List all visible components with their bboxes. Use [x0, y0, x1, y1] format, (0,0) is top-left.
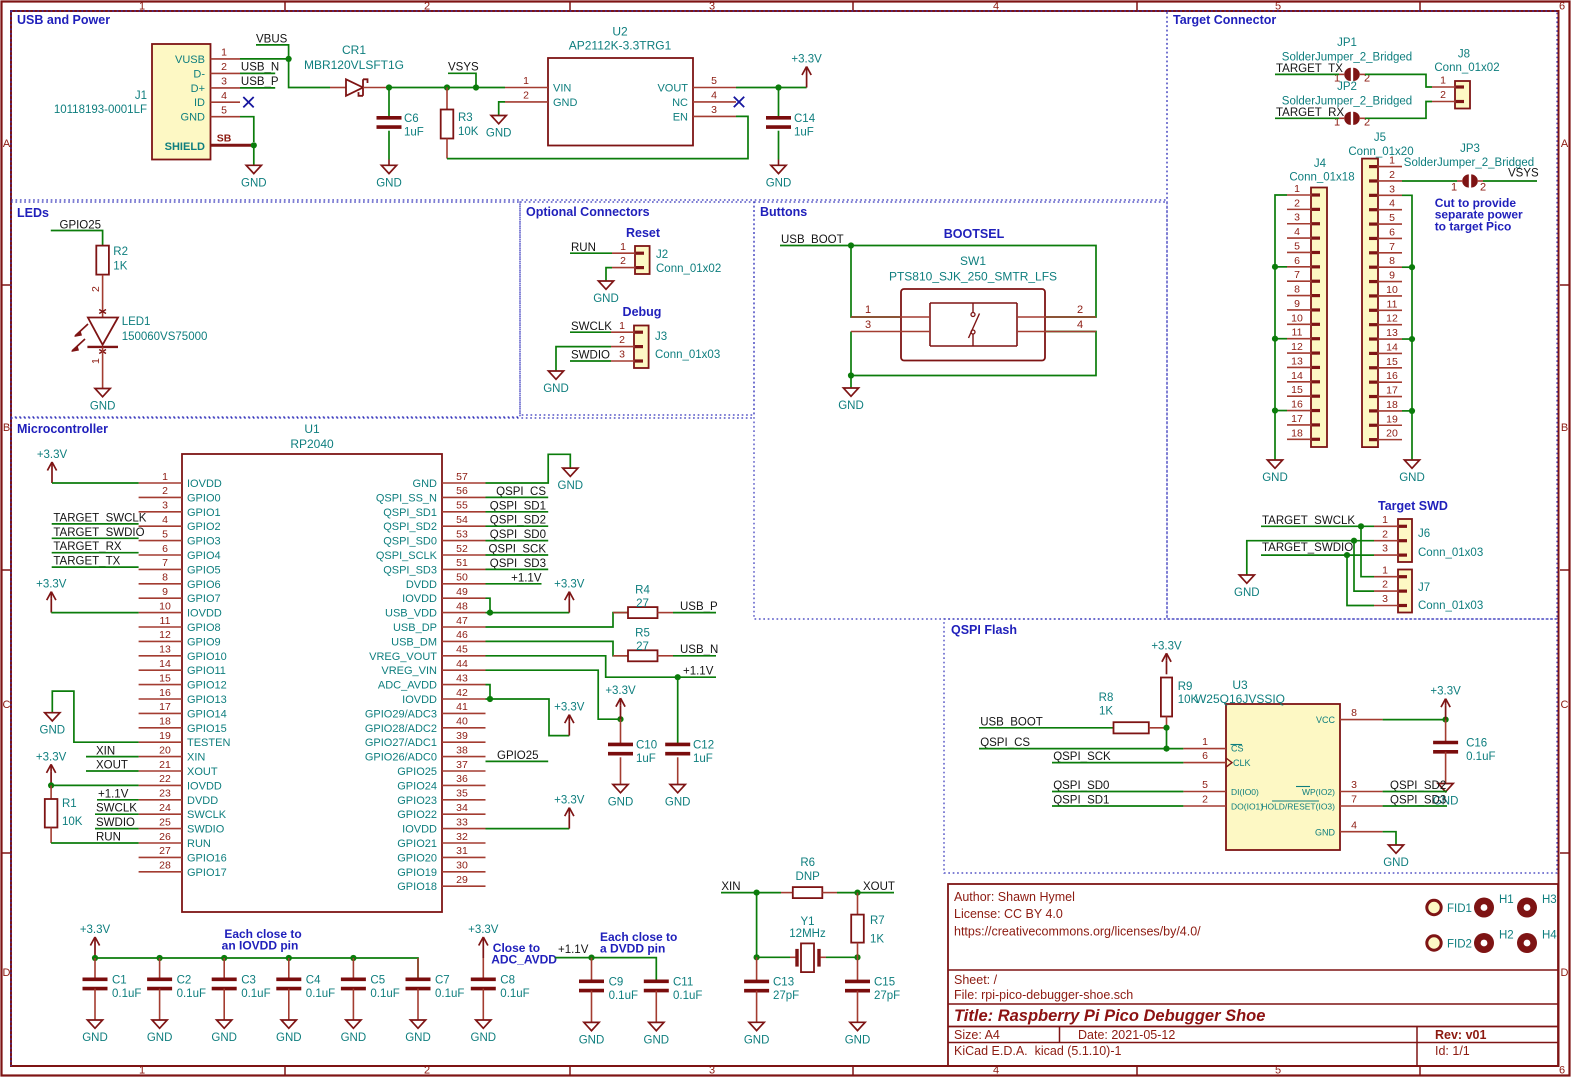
U1 pin 28 GPIO17: [139, 871, 182, 873]
ground symbol below SW1: [843, 388, 858, 396]
wire U1 USB_DP pin47 to R4: [486, 613, 629, 627]
power symbol +3.3V at VREG_VIN: [620, 705, 622, 719]
J5 pin 12: [1378, 324, 1402, 326]
svg-text:0.1uF: 0.1uF: [435, 988, 464, 1000]
svg-text:GPIO7: GPIO7: [187, 593, 221, 605]
U1 pin 15 GPIO12: [139, 684, 182, 686]
J1 pin 2 D-: [211, 72, 241, 74]
svg-text:TARGET_SWDIO: TARGET_SWDIO: [53, 527, 144, 539]
svg-text:8: 8: [1389, 255, 1395, 267]
J3 pin 3: [611, 360, 634, 362]
ground symbol below J5: [1404, 460, 1419, 468]
U1 pin 36 GPIO24: [442, 784, 486, 786]
U1 pin 25 SWDIO: [139, 828, 182, 830]
U1 pin 6 GPIO4: [139, 554, 182, 556]
svg-text:DO(IO1): DO(IO1): [1231, 801, 1263, 811]
U1 pin 38 GPIO26/ADC0: [442, 756, 486, 758]
wire J6 pin2 to ground: [1247, 541, 1374, 575]
svg-text:QSPI_SD0: QSPI_SD0: [1053, 780, 1109, 792]
svg-text:27pF: 27pF: [773, 990, 799, 1002]
junction XIN: [754, 890, 760, 896]
wire XIN down to crystal: [756, 893, 758, 958]
svg-text:26: 26: [159, 831, 171, 843]
svg-text:5: 5: [162, 528, 168, 540]
svg-text:GPIO5: GPIO5: [187, 564, 221, 576]
connector J3 Conn_01x03 body: [634, 326, 649, 369]
wire J2 pin2 to ground: [606, 268, 612, 281]
U1 pin 9 GPIO7: [139, 597, 182, 599]
svg-text:+1.1V: +1.1V: [558, 944, 589, 956]
svg-text:+1.1V: +1.1V: [511, 572, 542, 584]
wire shield junction down to GND: [253, 148, 255, 165]
svg-text:QSPI_SD1: QSPI_SD1: [490, 500, 546, 512]
U1 pin 5 GPIO3: [139, 540, 182, 542]
svg-text:1: 1: [221, 47, 227, 59]
wire JP2 to J8 pin2: [1365, 102, 1432, 119]
svg-text:C13: C13: [773, 977, 794, 989]
J7 pin 2: [1374, 590, 1398, 592]
junction R8 R9: [1163, 725, 1169, 731]
resistor R2 1K: [96, 246, 109, 275]
svg-text:4: 4: [1351, 819, 1357, 831]
svg-text:R4: R4: [635, 585, 650, 597]
svg-text:7: 7: [162, 557, 168, 569]
svg-text:27: 27: [159, 845, 171, 857]
svg-text:GND: GND: [1234, 587, 1260, 599]
J4 pin 11: [1287, 338, 1311, 340]
svg-text:GND: GND: [211, 1032, 237, 1044]
ground symbol below C2: [152, 1020, 167, 1028]
svg-text:56: 56: [456, 485, 468, 497]
svg-text:48: 48: [456, 600, 468, 612]
svg-text:21: 21: [159, 759, 171, 771]
wire J4 pin 11 to bus: [1275, 338, 1287, 340]
svg-text:C6: C6: [404, 113, 419, 125]
junction crystal right: [854, 954, 860, 960]
svg-text:D: D: [3, 967, 11, 979]
wire SW1 pin3 to bottom gnd rail: [850, 332, 852, 376]
regulator U2 AP2112K-3.3TRG1 body: [548, 58, 693, 146]
svg-text:ID: ID: [194, 97, 205, 109]
U2 pin 5 VOUT: [693, 87, 736, 89]
J4 pin 9: [1287, 309, 1311, 311]
wire J6 pin2 bus to J7 pin2: [1354, 541, 1374, 591]
svg-text:12: 12: [1291, 341, 1303, 353]
U1 pin 57 GND: [442, 482, 486, 484]
svg-text:PTS810_SJK_250_SMTR_LFS: PTS810_SJK_250_SMTR_LFS: [889, 270, 1057, 284]
power symbol +3.3V at U2 output: [806, 74, 808, 88]
J6 pin 1: [1374, 525, 1398, 527]
svg-text:54: 54: [456, 514, 468, 526]
svg-text:QSPI_SD3: QSPI_SD3: [1390, 795, 1446, 807]
svg-text:GND: GND: [181, 112, 206, 124]
J5 pin 15: [1378, 367, 1402, 369]
capacitor C6 1uF: [388, 88, 390, 118]
J4 pin 10: [1287, 323, 1311, 325]
svg-text:1uF: 1uF: [693, 753, 713, 765]
connector J2 Conn_01x02 body: [635, 246, 650, 274]
svg-text:GND: GND: [405, 1032, 431, 1044]
LED1 emission arrows: [75, 324, 88, 336]
J4 pin 1: [1287, 194, 1311, 196]
svg-text:GND: GND: [471, 1032, 497, 1044]
junction at C4: [286, 955, 292, 961]
svg-text:8: 8: [1294, 284, 1300, 296]
svg-text:3: 3: [1389, 183, 1395, 195]
U1 pin 22 IOVDD: [139, 784, 182, 786]
svg-text:5: 5: [1294, 240, 1300, 252]
U1 pin 29 GPIO18: [442, 885, 486, 887]
ground symbol below C11: [649, 1022, 664, 1030]
J5 pin 14: [1378, 352, 1402, 354]
J4 pin 4: [1287, 237, 1311, 239]
section box Buttons: [754, 202, 1167, 619]
power symbol +3.3V at U1 pin10: [50, 599, 52, 613]
svg-text:19: 19: [159, 730, 171, 742]
svg-text:C11: C11: [673, 977, 693, 989]
svg-text:14: 14: [1386, 341, 1398, 353]
svg-text:3: 3: [709, 1065, 715, 1077]
svg-text:FID1: FID1: [1447, 903, 1472, 915]
svg-text:TARGET_SWDIO: TARGET_SWDIO: [1262, 542, 1353, 554]
wire R2 to LED1: [102, 275, 104, 318]
svg-text:R9: R9: [1178, 681, 1193, 693]
U1 pin 43 ADC_AVDD: [442, 684, 486, 686]
svg-text:29: 29: [456, 874, 468, 886]
svg-text:GND: GND: [608, 797, 634, 809]
capacitor C14 1uF: [778, 88, 780, 118]
wire USB_BOOT to SW1 pin2 via top: [851, 246, 1096, 318]
power symbol +3.3V at USB_VDD: [568, 599, 570, 613]
svg-text:R7: R7: [870, 915, 885, 927]
svg-text:XIN: XIN: [721, 881, 740, 893]
svg-text:3: 3: [1294, 212, 1300, 224]
svg-text:QSPI_SD2: QSPI_SD2: [383, 521, 437, 533]
svg-text:7: 7: [1351, 794, 1357, 806]
ground symbol below C6: [381, 165, 396, 173]
svg-text:22: 22: [159, 773, 171, 785]
resistor R5 27: [613, 655, 628, 657]
svg-text:QSPI Flash: QSPI Flash: [951, 623, 1017, 637]
svg-text:18: 18: [159, 716, 171, 728]
capacitor C5 0.1uF: [352, 958, 354, 979]
svg-text:13: 13: [1291, 355, 1303, 367]
svg-text:J7: J7: [1418, 582, 1430, 594]
J4 pin 17: [1287, 424, 1311, 426]
J8 pin 1: [1432, 86, 1455, 88]
wire U1 VREG_VOUT pin45 to +1.1V rail: [486, 656, 678, 677]
U1 pin 39 GPIO27/ADC1: [442, 741, 486, 743]
J5 pin 4: [1378, 209, 1402, 211]
SW1 pin 2: [1017, 316, 1096, 318]
svg-text:U1: U1: [304, 422, 320, 436]
svg-text:RUN: RUN: [187, 838, 211, 850]
svg-text:20: 20: [159, 744, 171, 756]
fiducial FID2: [1427, 936, 1441, 950]
J5 pin 17: [1378, 396, 1402, 398]
svg-text:+3.3V: +3.3V: [791, 54, 822, 66]
svg-text:SWCLK: SWCLK: [571, 321, 612, 333]
svg-text:Date: 2021-05-12: Date: 2021-05-12: [1078, 1028, 1175, 1042]
wire U2 VOUT to +3.3V: [736, 87, 807, 89]
svg-text:Sheet: /: Sheet: /: [954, 973, 998, 987]
svg-text:RUN: RUN: [571, 242, 596, 254]
power symbol +3.3V at pin42: [568, 722, 570, 736]
svg-text:+3.3V: +3.3V: [605, 685, 636, 697]
wire R1 bottom to RUN: [50, 828, 52, 844]
svg-text:VIN: VIN: [553, 82, 571, 94]
wire R3 bottom to U2 EN: [446, 139, 448, 159]
svg-text:Conn_01x03: Conn_01x03: [655, 349, 720, 361]
svg-text:JP1: JP1: [1337, 37, 1357, 49]
wire +3.3V to U1 pin1: [52, 482, 139, 484]
svg-text:25: 25: [159, 816, 171, 828]
svg-text:J1: J1: [135, 90, 147, 102]
svg-text:13: 13: [159, 644, 171, 656]
svg-text:8: 8: [162, 572, 168, 584]
J5 pin 10: [1378, 295, 1402, 297]
section box Target Connector: [1167, 11, 1557, 619]
svg-text:D+: D+: [191, 83, 205, 95]
svg-text:27: 27: [636, 598, 649, 610]
J2 pin 1: [612, 252, 635, 254]
svg-text:SWDIO: SWDIO: [571, 350, 610, 362]
svg-text:2: 2: [1077, 304, 1083, 316]
wire U1 pin33 IOVDD to +3.3V: [486, 828, 570, 830]
svg-text:2: 2: [1382, 528, 1388, 540]
svg-text:3: 3: [1351, 779, 1357, 791]
svg-text:GPIO28/ADC2: GPIO28/ADC2: [365, 723, 437, 735]
svg-text:38: 38: [456, 744, 468, 756]
svg-text:GND: GND: [553, 97, 578, 109]
svg-text:C12: C12: [693, 740, 714, 752]
J4 pin 16: [1287, 410, 1311, 412]
junction at pin48: [487, 610, 493, 616]
svg-text:USB_DP: USB_DP: [393, 622, 437, 634]
svg-text:2: 2: [221, 61, 227, 73]
wire U1 GND pin57 to ground: [486, 454, 571, 483]
svg-text:GPIO13: GPIO13: [187, 694, 227, 706]
U1 pin 14 GPIO11: [139, 669, 182, 671]
svg-text:J3: J3: [655, 331, 667, 343]
mounting hole H4: [1517, 933, 1537, 953]
J1 pin 3 D+: [211, 87, 241, 89]
svg-text:23: 23: [159, 788, 171, 800]
ground symbol below C15: [850, 1022, 865, 1030]
wire J1 GND pin to shield junction: [240, 117, 254, 142]
junction crystal left: [754, 954, 760, 960]
svg-text:SWCLK: SWCLK: [187, 809, 227, 821]
wire J3 pin2 to ground: [556, 347, 611, 371]
svg-text:J2: J2: [656, 249, 668, 261]
svg-text:GPIO25: GPIO25: [397, 766, 437, 778]
svg-text:SWDIO: SWDIO: [187, 824, 225, 836]
junction J6 pin2 bus: [1351, 538, 1357, 544]
U3 pin 3 WP(IO2): [1340, 791, 1383, 793]
ground symbol below C1: [87, 1020, 102, 1028]
ground symbol below C10: [613, 785, 628, 793]
svg-text:R6: R6: [800, 857, 815, 869]
U1 pin 18 GPIO15: [139, 727, 182, 729]
svg-text:GND: GND: [744, 1034, 770, 1046]
J4 pin 7: [1287, 280, 1311, 282]
svg-text:3: 3: [619, 349, 625, 361]
svg-text:C4: C4: [306, 975, 321, 987]
J5 pin 7: [1378, 252, 1402, 254]
svg-text:0.1uF: 0.1uF: [500, 988, 529, 1000]
svg-text:Conn_01x02: Conn_01x02: [656, 263, 721, 275]
U1 pin 26 RUN: [139, 842, 182, 844]
J5 pin 20: [1378, 439, 1402, 441]
wire U3 GND to ground: [1383, 832, 1396, 845]
power symbol +3.3V at C1 bank: [94, 944, 96, 958]
U3 pin 7 HOLD/RESET(IO3): [1340, 805, 1383, 807]
U1 pin 49 IOVDD: [442, 597, 486, 599]
svg-text:XOUT: XOUT: [187, 766, 218, 778]
wire J5 ground bus: [1402, 195, 1412, 460]
svg-text:QSPI_SD0: QSPI_SD0: [490, 529, 546, 541]
junction USB_BOOT: [848, 242, 854, 248]
svg-text:VREG_VIN: VREG_VIN: [381, 665, 437, 677]
svg-text:an IOVDD pin: an IOVDD pin: [222, 939, 299, 953]
U2 pin 4 NC: [693, 101, 736, 103]
wire R8 junction down to QSPI_CS: [1166, 728, 1168, 749]
svg-text:0.1uF: 0.1uF: [673, 990, 702, 1002]
J2 pin 2: [612, 267, 635, 269]
svg-text:GPIO1: GPIO1: [187, 507, 221, 519]
svg-text:+3.3V: +3.3V: [1151, 640, 1182, 652]
section box USB and Power: [11, 11, 1167, 200]
svg-text:C9: C9: [609, 977, 624, 989]
capacitor C7 0.1uF: [417, 958, 419, 979]
svg-text:15: 15: [1386, 356, 1398, 368]
U1 pin 2 GPIO0: [139, 496, 182, 498]
svg-text:49: 49: [456, 586, 468, 598]
junction at C3: [221, 955, 227, 961]
svg-text:Optional Connectors: Optional Connectors: [526, 205, 650, 219]
svg-text:4: 4: [221, 90, 227, 102]
ground symbol at TESTEN: [45, 713, 60, 721]
svg-text:DVDD: DVDD: [406, 579, 437, 591]
capacitor C12 1uF: [677, 677, 679, 744]
svg-text:1: 1: [1389, 155, 1395, 167]
SW1 contacts and actuator: [972, 303, 974, 312]
J8 pin 2: [1432, 101, 1455, 103]
svg-text:GND: GND: [1315, 827, 1336, 837]
ground symbol below C12: [670, 785, 685, 793]
svg-text:GND: GND: [486, 128, 512, 140]
svg-text:14: 14: [159, 658, 171, 670]
svg-text:3: 3: [711, 104, 717, 116]
svg-text:1: 1: [1382, 564, 1388, 576]
svg-text:QSPI_SD3: QSPI_SD3: [383, 564, 437, 576]
svg-text:Conn_01x18: Conn_01x18: [1289, 172, 1354, 184]
svg-text:GND: GND: [341, 1032, 367, 1044]
svg-text:U3: U3: [1232, 678, 1248, 692]
svg-text:4: 4: [1389, 198, 1395, 210]
svg-text:Target Connector: Target Connector: [1173, 13, 1276, 27]
U1 pin 56 QSPI_SS_N: [442, 496, 486, 498]
junction at pin42: [487, 696, 493, 702]
svg-text:C7: C7: [435, 975, 450, 987]
svg-text:GPIO17: GPIO17: [187, 867, 227, 879]
svg-text:USB_P: USB_P: [680, 601, 718, 613]
svg-text:12: 12: [159, 629, 171, 641]
svg-text:GPIO12: GPIO12: [187, 680, 227, 692]
U3 pin 4 GND: [1340, 831, 1383, 833]
border row ticks: [2, 284, 11, 286]
wire J4 pin 16 to bus: [1275, 410, 1287, 412]
svg-text:SHIELD: SHIELD: [165, 141, 205, 153]
svg-text:B: B: [1561, 422, 1568, 434]
svg-text:1: 1: [1440, 75, 1446, 87]
section line Microcontroller: [11, 417, 754, 419]
svg-text:C: C: [1561, 699, 1569, 711]
svg-text:11: 11: [1387, 298, 1398, 310]
J1 pin 1 VUSB: [211, 58, 241, 60]
svg-text:2: 2: [1294, 197, 1300, 209]
U1 pin 53 QSPI_SD0: [442, 540, 486, 542]
svg-text:GPIO2: GPIO2: [187, 521, 221, 533]
U3 pin 6 CLK: [1183, 762, 1226, 764]
svg-text:3: 3: [162, 500, 168, 512]
svg-text:C10: C10: [636, 740, 657, 752]
J5 pin 1: [1378, 166, 1402, 168]
svg-text:Conn_01x02: Conn_01x02: [1434, 62, 1499, 74]
svg-text:SolderJumper_2_Bridged: SolderJumper_2_Bridged: [1282, 52, 1412, 64]
junction at C16: [1443, 717, 1449, 723]
U1 pin 20 XIN: [139, 756, 182, 758]
svg-text:C2: C2: [177, 975, 192, 987]
svg-text:+3.3V: +3.3V: [1430, 686, 1461, 698]
svg-text:GPIO8: GPIO8: [187, 622, 221, 634]
svg-text:QSPI_CS: QSPI_CS: [980, 737, 1030, 749]
svg-text:16: 16: [159, 687, 171, 699]
svg-text:USB_VDD: USB_VDD: [385, 608, 437, 620]
svg-text:IOVDD: IOVDD: [402, 593, 437, 605]
svg-text:FID2: FID2: [1447, 939, 1472, 951]
svg-text:TARGET_SWCLK: TARGET_SWCLK: [1262, 515, 1355, 527]
svg-text:2: 2: [90, 286, 102, 292]
svg-text:33: 33: [456, 816, 468, 828]
svg-text:C3: C3: [241, 975, 256, 987]
svg-text:2: 2: [1389, 169, 1395, 181]
svg-text:B: B: [3, 422, 10, 434]
svg-text:LEDs: LEDs: [17, 206, 49, 220]
J6 pin 2: [1374, 540, 1398, 542]
diode CR1 MBR120VLSFT1G schottky: [330, 87, 346, 89]
svg-text:10: 10: [1386, 284, 1398, 296]
power symbol +3.3V at R9: [1166, 660, 1168, 674]
U2 pin 3 EN: [693, 115, 736, 117]
J4 pin 8: [1287, 295, 1311, 297]
svg-text:USB and Power: USB and Power: [17, 13, 110, 27]
ground symbol below C8: [476, 1020, 491, 1028]
svg-text:36: 36: [456, 773, 468, 785]
J5 pin 6: [1378, 237, 1402, 239]
svg-text:NC: NC: [672, 97, 688, 109]
border column ticks: [284, 2, 286, 11]
svg-text:0.1uF: 0.1uF: [306, 988, 335, 1000]
no-connect X on J1 pin 4: [243, 97, 253, 107]
svg-text:License: CC BY 4.0: License: CC BY 4.0: [954, 907, 1063, 921]
ground symbol below C14: [771, 165, 786, 173]
wire TARGET_SWCLK to J7 pin1: [1361, 526, 1374, 576]
J5 pin 2: [1378, 180, 1402, 182]
svg-text:55: 55: [456, 500, 468, 512]
svg-text:C16: C16: [1466, 738, 1487, 750]
svg-text:VCC: VCC: [1316, 715, 1336, 725]
